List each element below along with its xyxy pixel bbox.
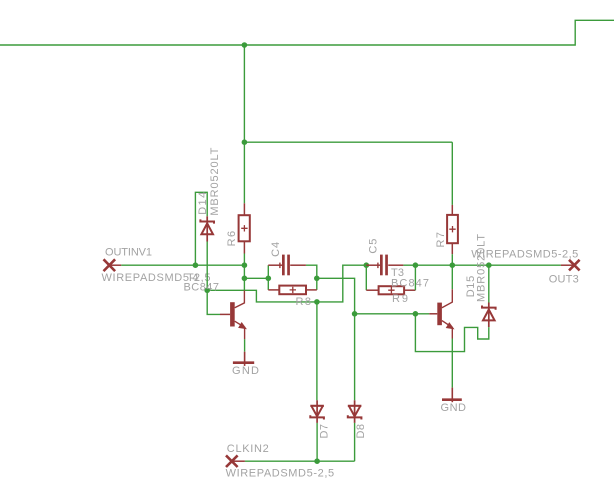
junction C5/R9 left bbox=[364, 262, 370, 268]
junction T4 base node bbox=[204, 288, 210, 294]
wire D14 cathode loop bbox=[195, 192, 207, 265]
transistor T4 BC847 bbox=[220, 291, 246, 340]
svg-text:MBR0520LT: MBR0520LT bbox=[475, 234, 487, 302]
junction T3 base line tap bbox=[413, 311, 419, 317]
capacitor C4 bbox=[268, 255, 306, 276]
junction C4/R8 right bbox=[314, 276, 320, 282]
wire D7 top bbox=[316, 302, 318, 400]
junction R6 / OUTINV1 bbox=[242, 262, 248, 268]
resistor R6 bbox=[239, 203, 250, 253]
svg-text:OUTINV1: OUTINV1 bbox=[105, 246, 152, 258]
junction collector node to C4 bbox=[242, 276, 248, 282]
wire vertical drop from top rail bbox=[243, 45, 245, 142]
resistor R9 bbox=[366, 286, 415, 294]
wire T3 emitter to GND bbox=[451, 339, 453, 388]
svg-text:BC847: BC847 bbox=[391, 277, 429, 289]
wire top supply rail bbox=[0, 20, 614, 45]
svg-text:D8: D8 bbox=[355, 424, 367, 439]
pad CLKIN2 bbox=[226, 455, 245, 467]
diode D8 bbox=[348, 400, 362, 423]
svg-text:R7: R7 bbox=[435, 232, 447, 248]
wire D7 bottom bbox=[316, 423, 318, 461]
svg-text:R8: R8 bbox=[296, 296, 312, 308]
svg-text:OUT3: OUT3 bbox=[549, 273, 579, 285]
ground GND (T3) bbox=[442, 388, 462, 403]
wire R6 top bbox=[243, 142, 245, 203]
junction R7 / T3 collector bbox=[450, 262, 456, 268]
diode D14 MBR0520LT bbox=[200, 216, 214, 241]
wire C4 node to T3 base line bbox=[317, 278, 430, 314]
svg-text:CLKIN2: CLKIN2 bbox=[227, 443, 269, 455]
wire base-net horizontal run bbox=[207, 265, 366, 302]
wire OUT3 net bbox=[403, 264, 561, 266]
wire R7 bottom bbox=[451, 254, 453, 265]
svg-text:GND: GND bbox=[441, 402, 467, 414]
resistor R8 bbox=[268, 286, 317, 295]
svg-text:R6: R6 bbox=[226, 231, 238, 247]
wire OUTINV1 net bbox=[121, 264, 244, 266]
wire D15 top bbox=[488, 265, 490, 302]
junction D7 tap bbox=[314, 299, 320, 305]
wire C4 right riser bbox=[306, 265, 317, 290]
svg-text:BC847: BC847 bbox=[184, 282, 220, 294]
wire C5 left riser to R9 bbox=[365, 265, 367, 290]
wire T3 collector bbox=[451, 265, 453, 289]
transistor T3 BC847 bbox=[429, 289, 453, 338]
svg-text:MBR0520LT: MBR0520LT bbox=[209, 147, 221, 215]
junction D14 left leg bbox=[193, 262, 199, 268]
wire collector node to C4 bbox=[244, 277, 268, 279]
wire D8 bottom bbox=[354, 423, 356, 461]
svg-text:GND: GND bbox=[232, 365, 259, 377]
wire R7 top bbox=[451, 142, 453, 205]
svg-text:D7: D7 bbox=[319, 424, 331, 439]
wire T3 base to D15 anode staircase bbox=[415, 314, 488, 352]
pad OUTINV1 bbox=[104, 259, 122, 271]
capacitor C5 bbox=[366, 255, 403, 276]
junction R9 riser bbox=[413, 262, 419, 268]
wire R6 bottom to T4 collector bbox=[243, 254, 245, 291]
wire T4 emitter to GND bbox=[244, 339, 246, 352]
junction top rail bbox=[242, 42, 248, 48]
junction D8 tap bbox=[352, 311, 358, 317]
wire horizontal branch to R7 bbox=[244, 141, 452, 143]
svg-text:D14: D14 bbox=[197, 192, 209, 215]
svg-text:C4: C4 bbox=[270, 242, 282, 257]
wire D8 top bbox=[354, 314, 356, 401]
junction D15 tap bbox=[486, 262, 492, 268]
wire CLKIN2 net bbox=[245, 460, 355, 462]
wire R9 right riser bbox=[414, 265, 416, 290]
svg-text:C5: C5 bbox=[368, 239, 380, 254]
diode D7 bbox=[310, 400, 324, 423]
junction C4/R8 left bbox=[266, 276, 272, 282]
wire C4 left riser bbox=[267, 265, 269, 290]
wire D14 anode down to T4 base bbox=[207, 242, 220, 315]
diode D15 MBR0520LT bbox=[482, 303, 496, 328]
junction branch bbox=[242, 139, 248, 145]
ground GND (T4) bbox=[233, 352, 254, 366]
svg-text:WIREPADSMD5-2,5: WIREPADSMD5-2,5 bbox=[226, 468, 335, 480]
resistor R7 bbox=[447, 205, 458, 254]
junction CLKIN2 net / D7 bbox=[314, 458, 320, 464]
pad OUT3 bbox=[561, 260, 580, 271]
svg-text:WIREPADSMD5-2,5: WIREPADSMD5-2,5 bbox=[471, 248, 578, 260]
